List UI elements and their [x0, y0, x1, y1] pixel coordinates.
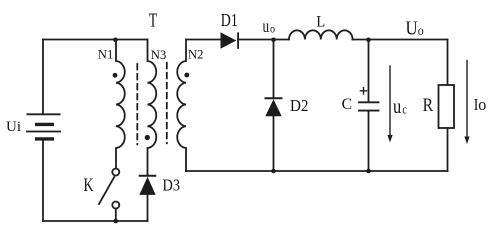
- svg-text:u: u: [263, 16, 270, 36]
- svg-text:K: K: [84, 175, 94, 196]
- svg-text:T: T: [149, 10, 158, 32]
- wire switch to bottom rail: [115, 209, 117, 222]
- svg-text:R: R: [423, 95, 434, 116]
- svg-text:o: o: [418, 23, 424, 38]
- Io arrowhead: [464, 137, 469, 145]
- junction node at N1 top: [113, 38, 118, 43]
- svg-text:D3: D3: [163, 176, 181, 195]
- svg-text:o: o: [478, 95, 486, 114]
- diode D2 branch wire: [273, 40, 275, 172]
- switch K bottom contact: [112, 202, 119, 209]
- battery Ui plates: [26, 114, 61, 139]
- junction node C bottom: [366, 169, 371, 174]
- svg-text:u: u: [393, 96, 401, 118]
- wire N2 top to D1: [186, 39, 221, 41]
- winding N1 of transformer T: [116, 40, 125, 169]
- svg-text:C: C: [342, 96, 353, 113]
- svg-text:N3: N3: [151, 47, 167, 62]
- uc arrow line: [389, 66, 391, 136]
- junction node uo: [271, 38, 276, 43]
- winding N3 of transformer T: [148, 40, 157, 175]
- svg-text:L: L: [316, 14, 325, 31]
- svg-text:N1: N1: [98, 47, 114, 62]
- wire top-left rail: [43, 39, 148, 41]
- polarity dot N2: [184, 73, 189, 78]
- svg-text:o: o: [270, 22, 275, 36]
- diode D2: [265, 99, 281, 116]
- inductor L: [289, 30, 353, 39]
- diode D3: [139, 177, 155, 195]
- transformer core dashed line left: [136, 64, 138, 144]
- uc arrowhead: [387, 135, 392, 143]
- wire right vertical to resistor R: [447, 40, 449, 86]
- wire left vertical below battery: [42, 141, 44, 222]
- wire bottom-right rail: [186, 170, 448, 172]
- svg-text:U: U: [406, 18, 419, 40]
- svg-text:Ui: Ui: [6, 119, 21, 135]
- diode D3 branch wire: [147, 195, 149, 221]
- svg-text:N2: N2: [188, 47, 204, 62]
- transformer core dashed line right: [166, 63, 168, 143]
- resistor R body: [439, 85, 455, 128]
- wire L to right corner: [353, 39, 448, 41]
- polarity dot N3: [145, 135, 150, 140]
- svg-text:D2: D2: [290, 96, 309, 115]
- capacitor C branch wire: [368, 40, 370, 172]
- svg-text:D1: D1: [221, 10, 238, 30]
- wire R bottom to rail: [447, 128, 449, 171]
- diode D2 cathode bar: [266, 97, 282, 99]
- capacitor C plates: [359, 102, 379, 110]
- wire bottom-left rail: [43, 220, 148, 222]
- wire left vertical above battery: [42, 40, 44, 115]
- polarity dot N1: [113, 73, 118, 78]
- junction node after L: [366, 38, 371, 43]
- junction node D2 bottom: [271, 169, 276, 174]
- junction node at switch bottom: [114, 219, 119, 224]
- diode D1: [221, 32, 237, 49]
- winding N2 of transformer T: [177, 40, 186, 172]
- plus sign of capacitor C: [360, 88, 366, 94]
- svg-text:c: c: [402, 101, 407, 116]
- Io arrow line: [466, 61, 468, 138]
- diode D3 cathode bar: [140, 175, 156, 177]
- switch K top contact: [112, 169, 119, 176]
- wire D1 cathode to node uo and on to L: [238, 39, 289, 41]
- switch K lever: [99, 177, 114, 204]
